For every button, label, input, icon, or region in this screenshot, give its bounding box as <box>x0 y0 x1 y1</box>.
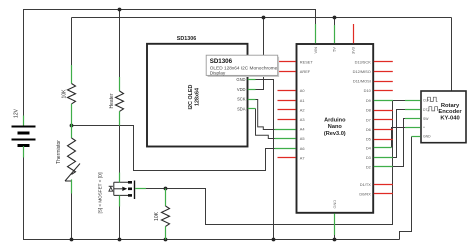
svg-text:SDA: SDA <box>237 106 246 111</box>
pin D8 leg <box>374 110 393 112</box>
pin 5V leg <box>334 25 336 43</box>
wire MOSFET gate to D9 <box>146 101 393 225</box>
wire rail drop to OLED VDD <box>256 18 264 90</box>
svg-text:A1: A1 <box>300 98 305 103</box>
wire encoder plus to D4 <box>392 128 406 148</box>
pin D11 leg <box>374 81 393 83</box>
pin VIN leg <box>315 24 317 43</box>
svg-text:Heater: Heater <box>109 93 115 108</box>
svg-text:D0/RX: D0/RX <box>359 191 371 196</box>
wire OLED GND to bus <box>256 80 274 240</box>
wire ground bus <box>24 157 400 240</box>
svg-text:(Rev3.0): (Rev3.0) <box>324 131 346 137</box>
pin A3 leg <box>278 119 296 121</box>
wire encoder DT to D3 <box>393 110 405 158</box>
wire encoder SW to D2 <box>393 119 405 167</box>
pin GND leg <box>248 79 256 81</box>
wire heater drop from 12V rail <box>119 10 121 78</box>
wire 5V inner rail <box>72 17 452 19</box>
pin CLK leg <box>405 100 420 102</box>
svg-text:D3: D3 <box>366 155 371 160</box>
svg-text:Encoder: Encoder <box>438 109 462 115</box>
pin D13 leg <box>374 61 393 63</box>
svg-text:GND: GND <box>236 77 245 82</box>
svg-text:D11/MOSI: D11/MOSI <box>353 79 371 84</box>
DT square wave glyph <box>428 107 438 111</box>
svg-text:5V: 5V <box>332 47 337 52</box>
tooltip info box SD1306 <box>206 55 279 77</box>
svg-text:D6: D6 <box>366 127 371 132</box>
svg-text:A2: A2 <box>300 107 305 112</box>
svg-text:D1/TX: D1/TX <box>360 182 371 187</box>
pin A0 leg <box>278 90 296 92</box>
svg-text:KY-040: KY-040 <box>440 116 459 122</box>
pin D4 leg <box>374 147 392 149</box>
svg-text:D13/SCK: D13/SCK <box>355 59 372 64</box>
node thermistor divider junction <box>70 124 74 128</box>
svg-text:Thermistor: Thermistor <box>56 140 62 164</box>
svg-text:GND: GND <box>423 135 431 139</box>
node rail/VDD junction <box>262 16 266 20</box>
pin A7 leg <box>278 157 296 159</box>
svg-text:D10: D10 <box>364 88 372 93</box>
wire OLED SDA to A5 <box>256 109 275 139</box>
wire MOSFET source to ground bus <box>119 206 121 240</box>
svg-text:SCK: SCK <box>237 97 246 102</box>
pin D2 leg <box>374 166 393 168</box>
svg-text:Arduino: Arduino <box>324 118 346 124</box>
wire rail drop to Arduino 5V <box>334 18 336 26</box>
svg-text:D5: D5 <box>366 137 371 142</box>
svg-text:VDD: VDD <box>237 87 246 92</box>
node rail/5V junction <box>333 16 337 20</box>
pin A5 leg <box>275 138 296 140</box>
pin A4 leg <box>275 129 296 131</box>
pin D9 leg <box>374 100 393 102</box>
svg-text:D4: D4 <box>366 145 372 150</box>
pin SDA leg <box>248 108 256 110</box>
CLK square wave glyph <box>428 97 438 101</box>
svg-text:A4: A4 <box>300 127 306 132</box>
pin D0/RX leg <box>374 193 393 195</box>
pin A1 leg <box>278 100 296 102</box>
pin A6 leg <box>275 148 296 150</box>
svg-text:D2: D2 <box>366 164 371 169</box>
svg-text:Display: Display <box>210 70 226 76</box>
wire heater to MOSFET drain <box>119 126 121 174</box>
svg-text:A3: A3 <box>300 117 305 122</box>
wire rail drop to encoder top <box>451 18 453 92</box>
pin SW leg <box>405 118 420 120</box>
op-amp U1 Arduino Nano <box>297 44 374 213</box>
node gate/R2 junction <box>164 187 168 191</box>
svg-text:DT: DT <box>423 108 428 112</box>
pin AREF leg <box>278 71 296 73</box>
svg-text:AREF: AREF <box>300 69 311 74</box>
rotary encoder U3 KY-040 <box>405 91 466 143</box>
svg-text:RESET: RESET <box>300 59 314 64</box>
svg-text:[S] < MOSFET < [D]: [S] < MOSFET < [D] <box>98 172 103 213</box>
pin D12 leg <box>374 71 393 73</box>
svg-text:12V: 12V <box>14 108 20 118</box>
svg-text:SW: SW <box>423 117 429 121</box>
wire D9 to encoder CLK <box>393 100 405 102</box>
wire thermistor node to A6 <box>72 126 275 171</box>
pin D7 leg <box>374 119 393 121</box>
pin 3V3 leg <box>353 24 355 43</box>
transistor Q1 MOSFET <box>98 172 147 213</box>
node bus/Arduino GND <box>333 238 337 242</box>
pin D1/TX leg <box>374 184 393 186</box>
svg-text:A5: A5 <box>300 136 305 141</box>
svg-text:Rotary: Rotary <box>441 103 460 109</box>
battery BT1 12V <box>12 108 36 157</box>
svg-text:Nano: Nano <box>328 124 343 130</box>
svg-text:SD1306: SD1306 <box>177 36 196 42</box>
svg-text:A7: A7 <box>300 155 305 160</box>
pin RESET leg <box>278 61 296 63</box>
svg-text:VIN: VIN <box>313 47 318 54</box>
thermistor TH1 <box>56 126 80 194</box>
pin D5 leg <box>374 139 393 141</box>
svg-text:A0: A0 <box>300 88 306 93</box>
node bus/thermistor <box>70 238 74 242</box>
pin A2 leg <box>278 109 296 111</box>
svg-text:CLK: CLK <box>423 99 430 103</box>
svg-text:GND: GND <box>332 200 337 209</box>
wire 12V+ top rail <box>24 10 316 127</box>
wire encoder GND to bus <box>400 137 412 240</box>
svg-text:SD1306: SD1306 <box>210 58 233 65</box>
node bus/source <box>118 238 122 242</box>
pin SCK leg <box>248 99 256 101</box>
pin D10 leg <box>374 90 393 92</box>
pin GND bottom leg <box>334 214 336 236</box>
svg-text:A6: A6 <box>300 146 305 151</box>
svg-text:128x64: 128x64 <box>195 88 201 106</box>
wire rail drop to R1 10K <box>71 18 73 66</box>
pin D6 leg <box>374 129 393 131</box>
resistor R1 10K <box>62 65 76 126</box>
pin plus leg <box>405 127 420 129</box>
wire Arduino GND to bus <box>334 234 336 240</box>
node 12V/heater junction <box>118 8 122 12</box>
pin D3 leg <box>374 157 393 159</box>
op-amp U2 OLED module SD1306 <box>147 36 256 147</box>
resistor heater <box>109 77 124 126</box>
node bus/R2 <box>164 238 168 242</box>
svg-text:D9: D9 <box>366 98 371 103</box>
wire thermistor bottom to bus <box>71 194 73 240</box>
pin GND leg <box>412 136 421 138</box>
resistor R2 10K gate pulldown <box>154 189 170 240</box>
svg-text:10K: 10K <box>62 89 68 99</box>
node bus/OLED GND <box>272 238 276 242</box>
wire OLED SCK to A4 <box>256 100 275 130</box>
svg-text:D7: D7 <box>366 117 371 122</box>
pin DT leg <box>405 109 420 111</box>
svg-text:I2C OLED: I2C OLED <box>188 84 194 109</box>
svg-text:D8: D8 <box>366 108 371 113</box>
svg-text:10K: 10K <box>154 211 160 221</box>
svg-text:D12/MISO: D12/MISO <box>353 69 371 74</box>
pin VDD leg <box>248 89 256 91</box>
svg-text:+: + <box>423 126 425 130</box>
svg-text:3V3: 3V3 <box>350 47 355 54</box>
